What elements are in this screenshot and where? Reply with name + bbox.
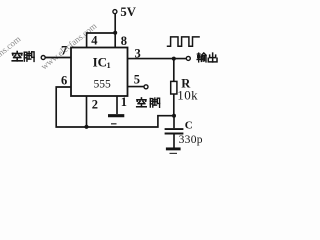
svg-text:6: 6 — [61, 73, 67, 87]
svg-text:1: 1 — [107, 61, 111, 70]
svg-text:3: 3 — [135, 46, 141, 60]
svg-text:C: C — [185, 120, 193, 132]
svg-text:7: 7 — [61, 43, 67, 57]
svg-text:10k: 10k — [177, 88, 198, 103]
svg-text:IC: IC — [93, 54, 107, 69]
svg-text:2: 2 — [92, 98, 98, 112]
svg-text:330p: 330p — [179, 134, 203, 146]
svg-text:555: 555 — [94, 79, 112, 91]
svg-text:8: 8 — [121, 34, 127, 48]
svg-text:5V: 5V — [120, 5, 136, 19]
svg-text:5: 5 — [134, 72, 140, 86]
svg-text:4: 4 — [91, 34, 98, 48]
svg-text:1: 1 — [121, 95, 127, 109]
